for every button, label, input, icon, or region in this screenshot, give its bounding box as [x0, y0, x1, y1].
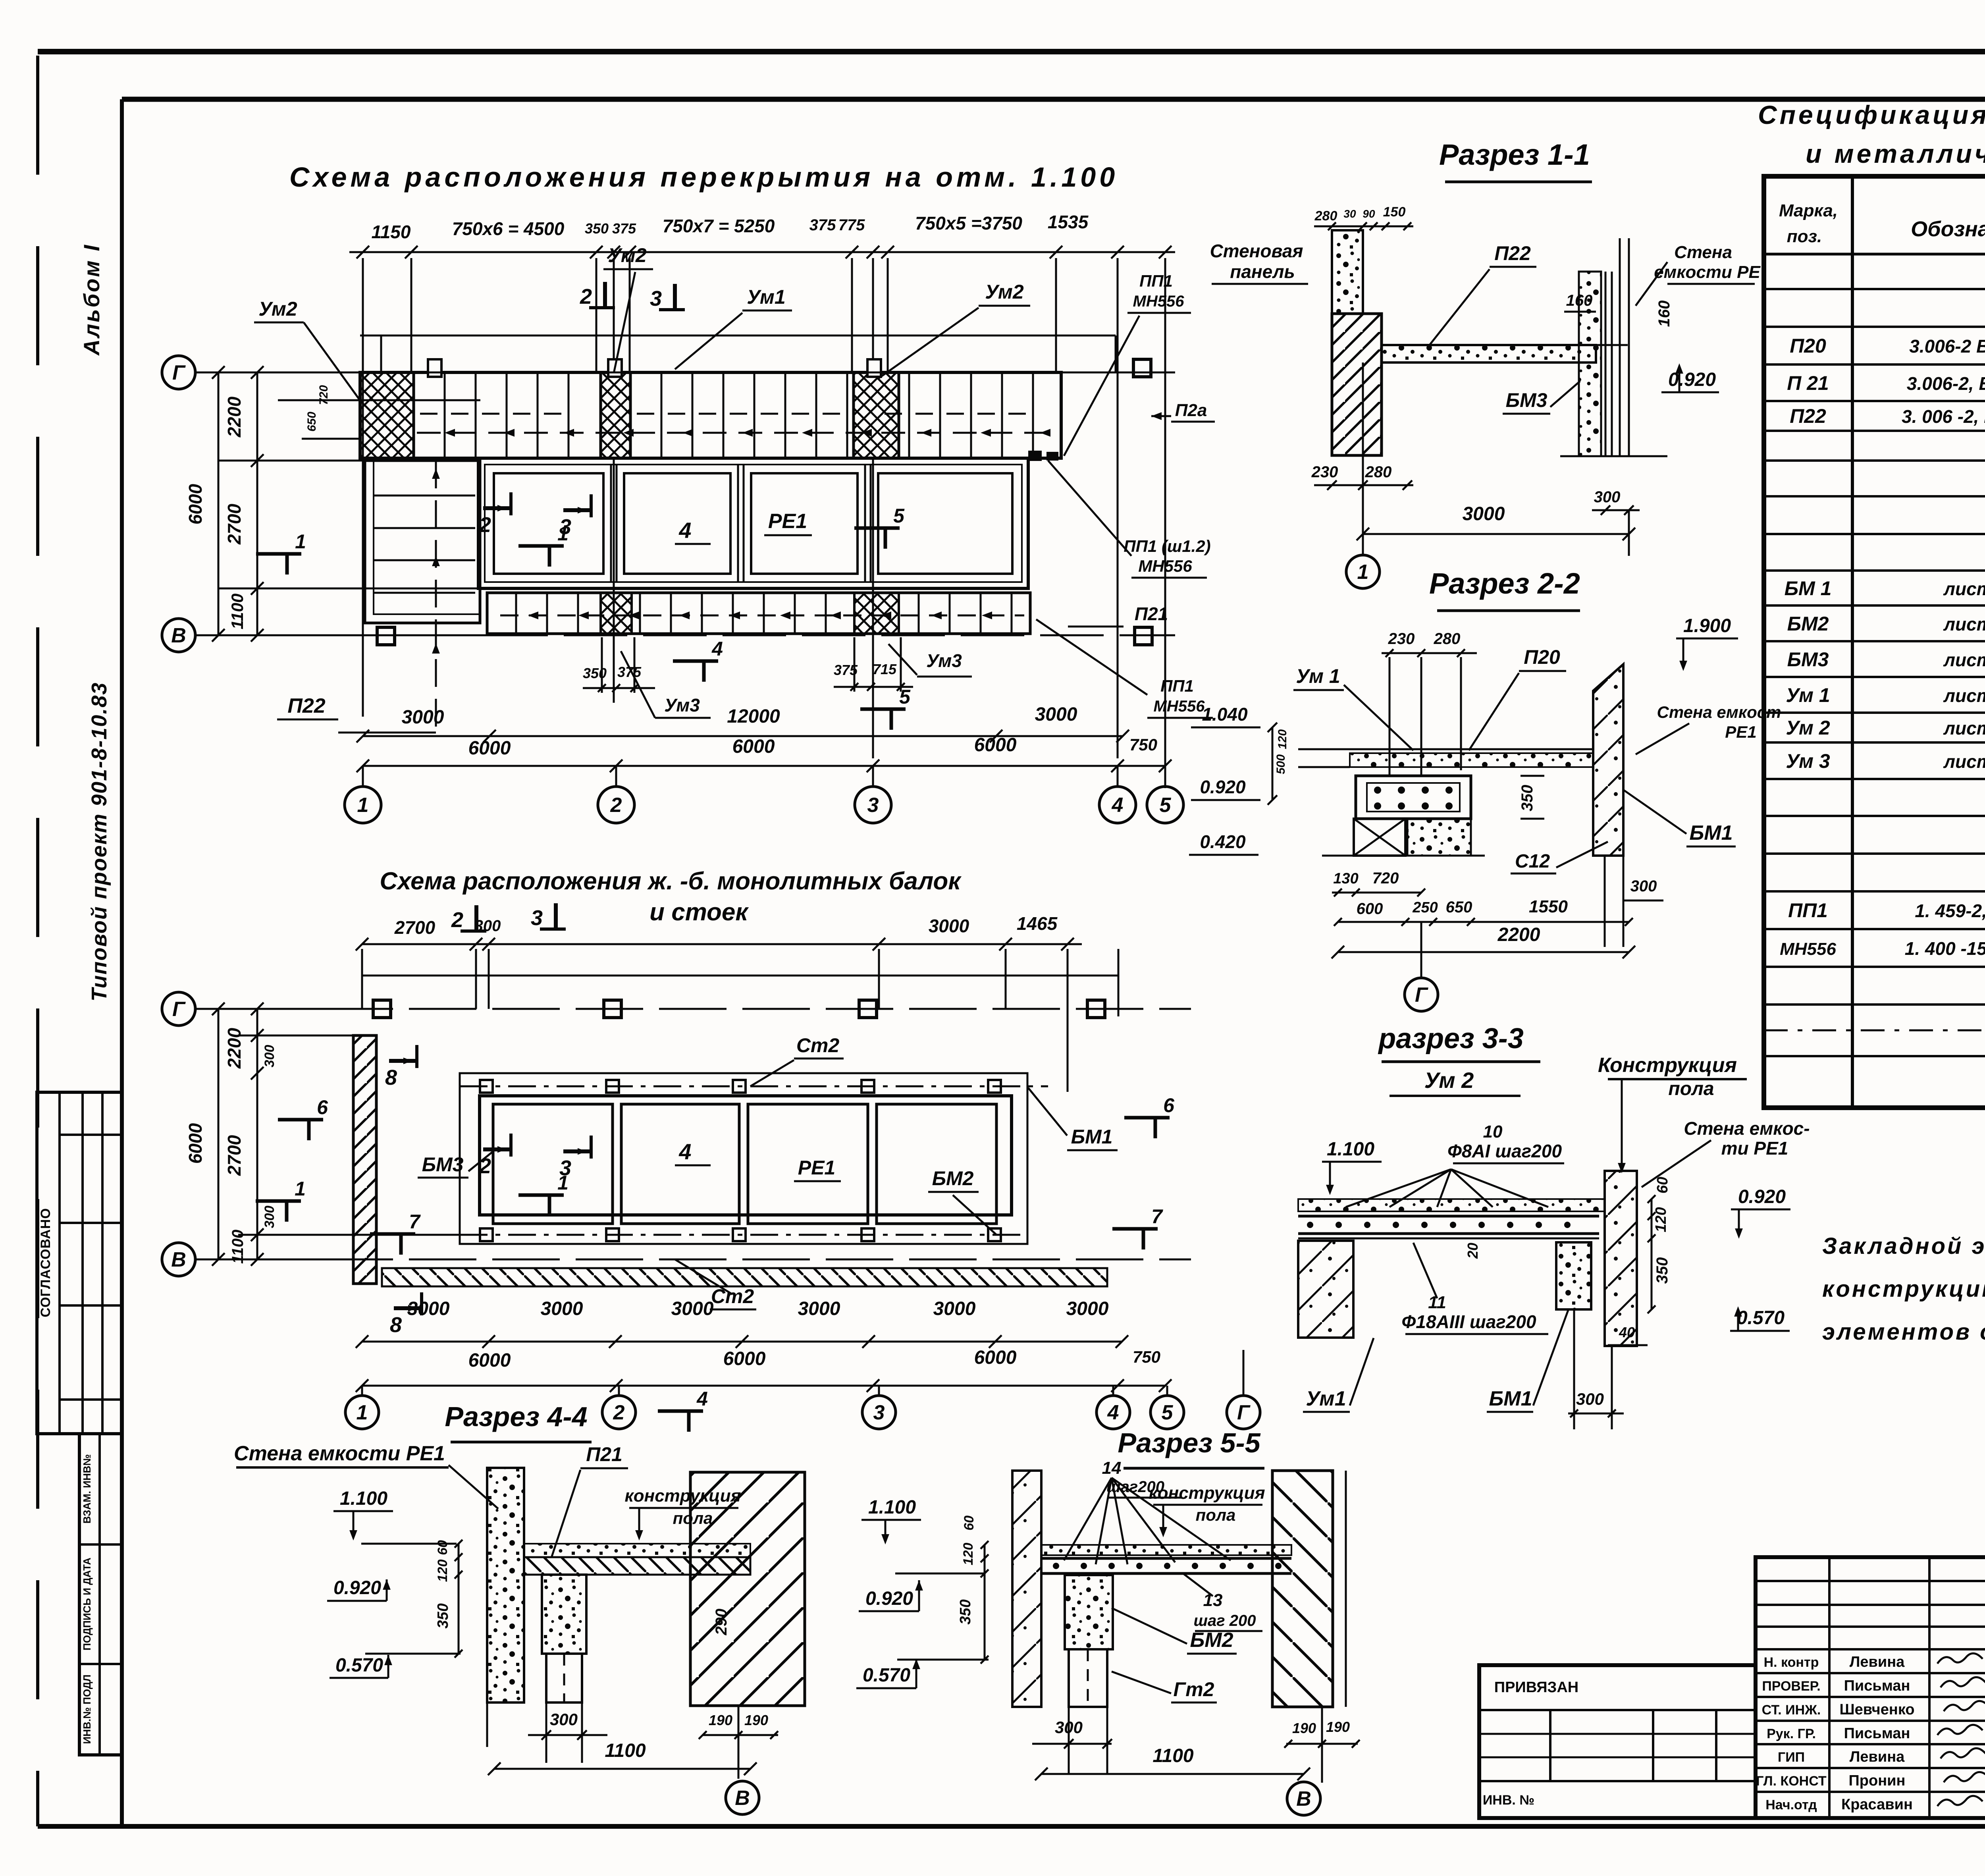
svg-text:4: 4	[1107, 1401, 1119, 1424]
svg-text:2200: 2200	[224, 1028, 245, 1069]
svg-text:1100: 1100	[1152, 1745, 1194, 1766]
svg-text:280: 280	[1314, 208, 1337, 224]
svg-text:14: 14	[1102, 1458, 1122, 1478]
svg-text:Ст2: Ст2	[711, 1285, 754, 1307]
svg-text:6000: 6000	[468, 738, 511, 759]
svg-text:БМ3: БМ3	[422, 1153, 464, 1176]
svg-text:0.570: 0.570	[863, 1665, 910, 1686]
svg-text:0.570: 0.570	[335, 1655, 383, 1676]
svg-text:375: 375	[809, 216, 836, 234]
svg-text:4: 4	[711, 638, 723, 660]
svg-text:БМ 1: БМ 1	[1785, 577, 1832, 600]
svg-text:300: 300	[1576, 1390, 1604, 1408]
svg-text:РЕ1: РЕ1	[1725, 723, 1756, 741]
svg-text:БМ2: БМ2	[1190, 1629, 1233, 1652]
svg-text:3000: 3000	[929, 916, 969, 936]
svg-text:Г: Г	[172, 998, 186, 1021]
svg-text:3000: 3000	[1066, 1298, 1109, 1319]
svg-text:0.570: 0.570	[1737, 1307, 1785, 1328]
svg-text:5: 5	[1160, 794, 1172, 817]
svg-text:Закладной элемент МН 556: Закладной элемент МН 556 заложить в	[1822, 1233, 1985, 1259]
svg-text:11: 11	[1428, 1293, 1446, 1312]
svg-text:ПП1: ПП1	[1160, 677, 1194, 695]
svg-text:П 21: П 21	[1787, 372, 1829, 394]
svg-text:160: 160	[1566, 292, 1593, 309]
svg-text:конструкцию пола для пр: конструкцию пола для приварки к нему	[1822, 1276, 1985, 1302]
svg-text:Г: Г	[1237, 1401, 1251, 1424]
svg-text:поз.: поз.	[1787, 227, 1822, 246]
svg-text:650: 650	[305, 412, 318, 432]
svg-text:ПРОВЕР.: ПРОВЕР.	[1762, 1679, 1820, 1694]
svg-text:1535: 1535	[1048, 212, 1089, 232]
svg-text:0.920: 0.920	[865, 1588, 913, 1609]
svg-text:1. 400 -15, Вып. 1: 1. 400 -15, Вып. 1	[1905, 938, 1985, 959]
svg-text:190: 190	[709, 1712, 732, 1728]
svg-text:лист 43: лист 43	[1943, 718, 1985, 738]
svg-text:Ум 1: Ум 1	[1786, 684, 1830, 706]
svg-text:350: 350	[1654, 1257, 1671, 1284]
svg-text:1465: 1465	[1017, 913, 1058, 934]
svg-text:П2а: П2а	[1175, 401, 1207, 420]
svg-text:1: 1	[295, 1178, 306, 1200]
svg-text:3.006-2, Вып. II-2: 3.006-2, Вып. II-2	[1907, 373, 1985, 394]
svg-text:280: 280	[1365, 463, 1392, 481]
svg-text:300: 300	[1594, 488, 1621, 506]
svg-text:2700: 2700	[224, 1135, 245, 1176]
svg-text:Обозначение: Обозначение	[1911, 217, 1985, 241]
svg-text:СОГЛАСОВАНО: СОГЛАСОВАНО	[38, 1208, 53, 1317]
svg-text:0.920: 0.920	[1200, 777, 1246, 797]
svg-text:1.100: 1.100	[340, 1488, 387, 1509]
svg-text:2: 2	[613, 1401, 625, 1424]
svg-text:120: 120	[1276, 729, 1289, 749]
svg-text:30: 30	[1343, 208, 1356, 220]
svg-text:МН556: МН556	[1133, 293, 1185, 310]
svg-text:60: 60	[962, 1515, 977, 1531]
svg-text:60: 60	[435, 1540, 450, 1555]
svg-text:290: 290	[713, 1609, 730, 1636]
svg-text:300: 300	[1630, 877, 1657, 895]
svg-text:БМ1: БМ1	[1689, 821, 1733, 844]
svg-text:190: 190	[1292, 1720, 1316, 1736]
svg-text:750: 750	[1133, 1348, 1160, 1366]
svg-text:2700: 2700	[394, 917, 436, 938]
svg-text:1.040: 1.040	[1202, 704, 1248, 725]
svg-text:40: 40	[1619, 1324, 1635, 1340]
svg-text:5: 5	[893, 505, 905, 527]
svg-text:Ум1: Ум1	[747, 286, 785, 308]
svg-text:Г: Г	[1415, 983, 1428, 1006]
svg-text:350: 350	[585, 220, 609, 237]
svg-text:Ум3: Ум3	[664, 695, 700, 715]
svg-text:5: 5	[899, 686, 911, 708]
svg-text:300: 300	[262, 1045, 277, 1068]
svg-text:350: 350	[957, 1599, 974, 1624]
svg-text:Левина: Левина	[1850, 1749, 1905, 1765]
svg-text:Письман: Письман	[1844, 1677, 1910, 1694]
svg-text:Спецификация ж.-б. сборных: Спецификация ж.-б. сборных, монолитных	[1758, 100, 1985, 129]
svg-text:1: 1	[1357, 561, 1369, 584]
svg-text:Рук. ГР.: Рук. ГР.	[1767, 1726, 1816, 1741]
svg-text:6: 6	[317, 1096, 328, 1118]
svg-text:350: 350	[435, 1603, 451, 1628]
svg-text:П22: П22	[1494, 242, 1531, 264]
svg-text:230: 230	[1311, 463, 1338, 481]
svg-text:Ум 3: Ум 3	[1786, 750, 1830, 772]
svg-text:90: 90	[1363, 208, 1375, 220]
svg-text:В: В	[735, 1787, 750, 1810]
svg-text:160: 160	[1655, 301, 1673, 327]
svg-text:1100: 1100	[605, 1740, 646, 1761]
svg-text:1. 459-2, Вып.2: 1. 459-2, Вып.2	[1915, 900, 1985, 921]
svg-text:Разрез 5-5: Разрез 5-5	[1118, 1427, 1260, 1458]
svg-text:120: 120	[435, 1560, 450, 1582]
svg-text:П20: П20	[1790, 335, 1826, 357]
svg-text:3. 006 -2, Вып. II-2: 3. 006 -2, Вып. II-2	[1902, 406, 1985, 427]
svg-text:Стеновая: Стеновая	[1210, 241, 1303, 261]
svg-text:Письман: Письман	[1844, 1725, 1910, 1742]
svg-text:Альбом I: Альбом I	[79, 243, 104, 356]
svg-text:7: 7	[1151, 1205, 1163, 1228]
svg-text:Ум 2: Ум 2	[1424, 1068, 1474, 1093]
svg-text:250: 250	[1412, 899, 1438, 916]
svg-text:150: 150	[1383, 204, 1406, 220]
svg-text:ГЛ. КОНСТ: ГЛ. КОНСТ	[1756, 1774, 1827, 1789]
svg-text:пола: пола	[1668, 1078, 1714, 1099]
svg-text:Ф8АI шаг200: Ф8АI шаг200	[1447, 1141, 1562, 1161]
svg-text:Разрез 1-1: Разрез 1-1	[1439, 138, 1590, 171]
svg-text:6000: 6000	[185, 484, 206, 524]
svg-text:2: 2	[451, 908, 463, 932]
svg-text:П21: П21	[586, 1443, 622, 1465]
svg-text:Конструкция: Конструкция	[1598, 1054, 1737, 1077]
svg-text:емкости РЕ: емкости РЕ	[1654, 262, 1761, 282]
svg-text:20: 20	[1465, 1243, 1481, 1259]
svg-text:60: 60	[1654, 1177, 1671, 1193]
svg-text:ПП1: ПП1	[1139, 272, 1173, 290]
svg-text:8: 8	[390, 1313, 402, 1337]
svg-text:6000: 6000	[974, 1347, 1017, 1368]
svg-text:3: 3	[873, 1401, 885, 1424]
svg-text:шаг 200: шаг 200	[1193, 1612, 1256, 1629]
svg-text:П22: П22	[1790, 405, 1826, 427]
svg-text:П22: П22	[287, 694, 325, 717]
svg-text:и стоек: и стоек	[649, 898, 749, 926]
svg-text:7: 7	[409, 1211, 421, 1233]
svg-text:РЕ1: РЕ1	[768, 510, 807, 533]
svg-text:Стена емкос-: Стена емкос-	[1684, 1118, 1810, 1139]
svg-text:3: 3	[650, 287, 662, 310]
svg-text:0.920: 0.920	[1668, 369, 1716, 390]
svg-text:пола: пола	[1196, 1506, 1236, 1524]
svg-text:3000: 3000	[407, 1298, 450, 1319]
svg-text:элементов ограждения.: элементов ограждения.	[1822, 1319, 1985, 1345]
svg-text:0.920: 0.920	[1738, 1186, 1786, 1207]
svg-text:2: 2	[479, 513, 491, 537]
svg-text:6000: 6000	[732, 736, 775, 757]
svg-text:2: 2	[610, 794, 622, 817]
svg-text:БМ2: БМ2	[1787, 613, 1829, 635]
svg-text:Ум2: Ум2	[985, 281, 1024, 303]
svg-text:1550: 1550	[1529, 897, 1568, 916]
svg-text:280: 280	[1434, 630, 1461, 648]
svg-text:ти РЕ1: ти РЕ1	[1721, 1138, 1788, 1159]
svg-text:750х5 =3750: 750х5 =3750	[915, 213, 1022, 233]
svg-text:В: В	[171, 1248, 186, 1271]
svg-text:720: 720	[317, 385, 330, 405]
svg-text:Марка,: Марка,	[1779, 201, 1838, 220]
svg-text:и металлических конструк: и металлических конструкций.	[1806, 139, 1985, 168]
svg-text:СТ. ИНЖ.: СТ. ИНЖ.	[1762, 1702, 1821, 1718]
svg-text:В: В	[1296, 1787, 1311, 1810]
svg-text:ПОДПИСЬ И ДАТА: ПОДПИСЬ И ДАТА	[81, 1558, 93, 1650]
svg-text:Левина: Левина	[1850, 1654, 1905, 1670]
svg-text:120: 120	[961, 1543, 976, 1566]
svg-text:Красавин: Красавин	[1841, 1796, 1913, 1813]
svg-text:3000: 3000	[1463, 503, 1505, 524]
svg-text:Типовой проект 901-8-10.83: Типовой проект 901-8-10.83	[87, 682, 111, 1002]
svg-text:Гт2: Гт2	[1174, 1678, 1214, 1701]
svg-text:3000: 3000	[671, 1298, 714, 1319]
svg-text:8: 8	[385, 1066, 397, 1089]
svg-text:6000: 6000	[468, 1350, 511, 1371]
svg-text:Ум2: Ум2	[258, 298, 297, 320]
svg-text:12000: 12000	[727, 706, 780, 727]
svg-text:6: 6	[1163, 1094, 1175, 1116]
svg-text:6000: 6000	[185, 1123, 206, 1164]
svg-text:Ст2: Ст2	[796, 1034, 840, 1057]
svg-text:Н. контр: Н. контр	[1764, 1655, 1819, 1670]
svg-text:1.100: 1.100	[868, 1497, 916, 1518]
svg-text:2200: 2200	[1497, 924, 1540, 945]
svg-text:500: 500	[1274, 754, 1287, 774]
svg-text:ВЗАМ. ИНВ№: ВЗАМ. ИНВ№	[81, 1454, 93, 1524]
svg-text:300: 300	[474, 917, 501, 935]
svg-text:Схема расположения перек: Схема расположения перекрытия на отм. 1.…	[289, 162, 1118, 193]
svg-text:Ум2: Ум2	[608, 244, 647, 266]
svg-text:МН556: МН556	[1138, 557, 1192, 575]
svg-text:3: 3	[531, 906, 543, 930]
svg-text:3000: 3000	[541, 1298, 583, 1319]
svg-text:ГИП: ГИП	[1778, 1750, 1805, 1765]
svg-text:750х6 = 4500: 750х6 = 4500	[452, 218, 565, 239]
svg-text:разрез 3-3: разрез 3-3	[1378, 1023, 1524, 1055]
svg-text:МН556: МН556	[1780, 939, 1836, 959]
svg-text:БМ3: БМ3	[1787, 648, 1829, 671]
svg-text:2700: 2700	[224, 503, 245, 545]
svg-text:0.420: 0.420	[1200, 831, 1246, 852]
svg-text:Г: Г	[172, 361, 186, 384]
svg-text:ПП1 (ш1.2): ПП1 (ш1.2)	[1124, 537, 1210, 555]
svg-text:720: 720	[1372, 870, 1399, 887]
svg-text:Разрез 2-2: Разрез 2-2	[1429, 567, 1580, 600]
svg-text:1: 1	[295, 530, 306, 553]
svg-text:БМ3: БМ3	[1506, 389, 1548, 411]
svg-text:120: 120	[1653, 1207, 1669, 1232]
svg-text:Ум1: Ум1	[1306, 1387, 1346, 1410]
svg-text:1: 1	[357, 1401, 368, 1424]
svg-text:панель: панель	[1230, 261, 1295, 282]
svg-text:6000: 6000	[974, 735, 1017, 756]
svg-text:715: 715	[873, 661, 897, 677]
svg-text:1100: 1100	[228, 594, 247, 629]
svg-text:1.900: 1.900	[1683, 615, 1731, 636]
svg-text:3.006-2 Вып. II-2: 3.006-2 Вып. II-2	[1909, 336, 1985, 357]
svg-text:Ум 2: Ум 2	[1786, 717, 1830, 739]
svg-text:Ф18АIII шаг200: Ф18АIII шаг200	[1401, 1311, 1536, 1332]
svg-text:650: 650	[1446, 898, 1472, 916]
svg-text:0.920: 0.920	[333, 1577, 381, 1598]
svg-text:Разрез 4-4: Разрез 4-4	[445, 1401, 587, 1432]
svg-text:Пронин: Пронин	[1848, 1772, 1905, 1789]
svg-text:350: 350	[1519, 785, 1536, 812]
svg-text:Стена: Стена	[1674, 243, 1732, 262]
svg-text:230: 230	[1388, 630, 1415, 648]
svg-text:Стена емкости РЕ1: Стена емкости РЕ1	[234, 1442, 445, 1465]
svg-text:5: 5	[1162, 1401, 1174, 1424]
svg-text:Нач.отд: Нач.отд	[1765, 1797, 1817, 1812]
svg-text:350: 350	[583, 665, 607, 681]
svg-text:лист 42: лист 42	[1943, 614, 1985, 634]
svg-text:1: 1	[557, 1172, 569, 1194]
svg-text:3000: 3000	[798, 1298, 840, 1319]
svg-text:БМ1: БМ1	[1489, 1387, 1532, 1410]
svg-text:лист 42: лист 42	[1943, 650, 1985, 670]
svg-text:3000: 3000	[402, 707, 444, 728]
svg-text:1: 1	[357, 794, 369, 817]
svg-text:10: 10	[1483, 1122, 1503, 1141]
svg-text:375: 375	[612, 220, 636, 237]
svg-text:МН556: МН556	[1154, 698, 1205, 715]
svg-text:лист 43: лист 43	[1943, 685, 1985, 706]
svg-text:лист 42: лист 42	[1943, 578, 1985, 599]
svg-text:2: 2	[479, 1154, 491, 1178]
svg-text:П21: П21	[1135, 603, 1168, 624]
svg-text:ИНВ.№ ПОДЛ: ИНВ.№ ПОДЛ	[81, 1674, 93, 1744]
svg-text:6000: 6000	[723, 1348, 766, 1369]
svg-text:600: 600	[1357, 900, 1383, 918]
svg-text:1: 1	[557, 523, 569, 545]
svg-text:130: 130	[1333, 870, 1358, 887]
svg-text:БМ1: БМ1	[1071, 1126, 1113, 1148]
svg-text:190: 190	[744, 1712, 768, 1728]
svg-text:4: 4	[696, 1388, 708, 1410]
svg-text:300: 300	[262, 1206, 277, 1228]
svg-text:2200: 2200	[224, 396, 245, 438]
svg-text:1.100: 1.100	[1327, 1139, 1374, 1160]
svg-text:Ум 1: Ум 1	[1296, 665, 1340, 687]
svg-text:2: 2	[580, 285, 592, 308]
svg-text:300: 300	[550, 1710, 578, 1729]
svg-text:4: 4	[678, 1139, 691, 1164]
svg-text:4: 4	[1112, 794, 1124, 817]
svg-text:3000: 3000	[1035, 704, 1077, 725]
svg-text:ПП1: ПП1	[1788, 899, 1828, 922]
svg-text:750х7 = 5250: 750х7 = 5250	[663, 216, 775, 236]
svg-text:П20: П20	[1524, 646, 1560, 668]
svg-text:190: 190	[1326, 1719, 1350, 1735]
svg-text:Схема расположения ж. -б.: Схема расположения ж. -б. монолитных бал…	[380, 868, 962, 895]
svg-text:1150: 1150	[372, 222, 411, 242]
svg-text:БМ2: БМ2	[932, 1167, 974, 1190]
svg-text:конструкция: конструкция	[1149, 1483, 1265, 1503]
svg-text:ИНВ. №: ИНВ. №	[1483, 1793, 1534, 1808]
svg-text:РЕ1: РЕ1	[798, 1157, 836, 1179]
svg-text:3000: 3000	[933, 1298, 976, 1319]
svg-text:Шевченко: Шевченко	[1839, 1701, 1914, 1718]
svg-text:В: В	[171, 624, 186, 647]
svg-text:ПРИВЯЗАН: ПРИВЯЗАН	[1494, 1679, 1578, 1696]
svg-text:13: 13	[1203, 1591, 1223, 1610]
svg-text:775: 775	[838, 216, 865, 234]
svg-text:Ум3: Ум3	[926, 650, 962, 671]
svg-text:3: 3	[867, 794, 879, 817]
svg-text:С12: С12	[1515, 851, 1550, 872]
svg-text:750: 750	[1129, 735, 1157, 754]
svg-text:лист 43: лист 43	[1943, 751, 1985, 772]
svg-text:4: 4	[678, 518, 691, 543]
